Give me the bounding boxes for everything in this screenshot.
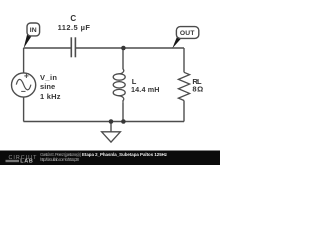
svg-text:LAB: LAB	[20, 159, 33, 165]
svg-text:C: C	[70, 14, 76, 23]
svg-text:sine: sine	[40, 82, 55, 91]
svg-text:8 Ω: 8 Ω	[192, 85, 203, 94]
svg-text:http://circuitlab.com/c/55zq38: http://circuitlab.com/c/55zq38	[40, 157, 80, 162]
svg-text:IN: IN	[30, 27, 37, 34]
svg-text:Etapa 2_Phasnla_Subetapa Palto: Etapa 2_Phasnla_Subetapa Paltos 125Hz	[82, 152, 168, 157]
svg-text:14.4 mH: 14.4 mH	[131, 85, 160, 94]
svg-text:1 kHz: 1 kHz	[40, 92, 61, 101]
svg-text:V_in: V_in	[40, 73, 57, 82]
svg-text:112.5 µF: 112.5 µF	[58, 23, 91, 32]
svg-text:OUT: OUT	[180, 30, 196, 37]
